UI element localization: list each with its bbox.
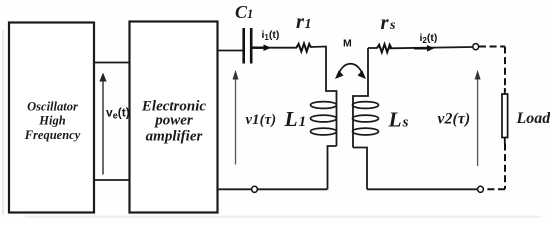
- load resistor: [502, 88, 508, 144]
- resistor rs: [377, 44, 392, 52]
- scan shadow bottom: [25, 216, 540, 218]
- mutual coupling arrow M: [335, 64, 366, 79]
- svg-text:Load: Load: [516, 110, 550, 127]
- svg-text:amplifier: amplifier: [146, 129, 203, 145]
- wire bottom between boxes: [94, 179, 130, 181]
- wire rs to node: [390, 47, 473, 48]
- svg-text:v1(τ): v1(τ): [246, 112, 277, 128]
- svg-text:ve(t): ve(t): [106, 106, 130, 121]
- wire r1 to L1: [311, 47, 337, 100]
- amplifier box label: [141, 99, 207, 145]
- svg-text:Oscillator: Oscillator: [27, 100, 78, 114]
- svg-text:power: power: [153, 113, 193, 129]
- svg-text:Frequency: Frequency: [24, 128, 81, 142]
- resistor r1: [297, 44, 312, 52]
- wire top between boxes: [94, 62, 130, 64]
- vs(t) source arrow: [99, 73, 106, 175]
- voltage arrow v2: [475, 70, 481, 166]
- wire C1 to r1: [252, 47, 297, 49]
- wire L1 to bottom: [328, 146, 337, 189]
- capacitor C1: [244, 28, 252, 64]
- node secondary top: [473, 44, 479, 50]
- node secondary bottom: [478, 186, 484, 192]
- bottom wire secondary: [367, 188, 478, 190]
- bottom wire primary: [218, 188, 328, 190]
- svg-text:i1(t): i1(t): [262, 29, 280, 42]
- wire Ls to bottom: [353, 148, 367, 190]
- dashed wire load bottom: [484, 144, 505, 190]
- wire Ls to rs: [368, 47, 377, 49]
- node primary bottom: [252, 186, 258, 192]
- scan shadow left: [2, 30, 4, 215]
- inductor Ls: [353, 48, 379, 148]
- wire amplifier to C1: [218, 50, 243, 52]
- svg-text:High: High: [38, 114, 65, 128]
- current arrow i1: [253, 44, 272, 51]
- voltage arrow v1: [233, 70, 239, 165]
- svg-text:i2(t): i2(t): [420, 32, 438, 45]
- svg-text:v2(τ): v2(τ): [438, 111, 471, 128]
- dashed wire node to load top: [479, 47, 505, 92]
- oscillator box: [9, 23, 94, 213]
- svg-text:M: M: [343, 38, 352, 50]
- oscillator box label: [24, 100, 81, 142]
- inductor L1: [311, 99, 337, 146]
- current arrow i2: [414, 45, 435, 52]
- amplifier box: [130, 22, 218, 213]
